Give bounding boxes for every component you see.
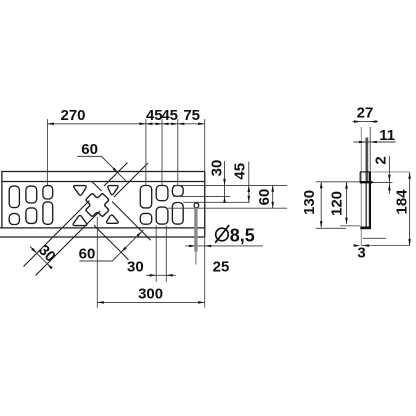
svg-text:30: 30 <box>127 259 144 276</box>
dim line 2 tick <box>388 156 390 194</box>
svg-text:45: 45 <box>146 107 163 124</box>
svg-text:30: 30 <box>209 160 226 177</box>
side ext 27 right <box>369 127 371 172</box>
arrow 30v lower <box>223 196 226 203</box>
dim line 184 <box>409 172 411 245</box>
arrow 25 right <box>205 245 212 248</box>
arrow 60v lower <box>271 202 274 209</box>
arrow 45v upper <box>248 186 251 193</box>
extension line lower-slot-top C <box>183 201 249 203</box>
svg-text:25: 25 <box>213 259 230 276</box>
tray rail bottom inner edge <box>0 227 205 229</box>
arrow 30v upper <box>223 179 226 186</box>
slot colA lower <box>140 213 151 224</box>
extension line right end <box>204 119 206 308</box>
dim line 45 vert <box>248 162 250 203</box>
svg-text:27: 27 <box>357 105 374 122</box>
arrow 11 left <box>359 141 366 144</box>
side ext 184 bottom <box>361 245 409 247</box>
side web line inner <box>365 138 367 228</box>
side ext 120 bottom <box>340 225 360 227</box>
slot colA upper <box>140 186 151 208</box>
hole circle <box>194 203 199 208</box>
arrows at colB <box>156 123 163 126</box>
dim line 130 <box>320 182 322 228</box>
arrow 27 right <box>370 120 377 123</box>
svg-text:130: 130 <box>301 190 318 215</box>
side ext 130 bottom <box>316 227 346 229</box>
arrow 30diag lower <box>47 264 53 270</box>
triangle hole T3 (up) <box>73 215 87 225</box>
arrow 45v lower <box>248 196 251 203</box>
side web line inner2 <box>367 138 369 183</box>
svg-text:11: 11 <box>379 127 395 144</box>
dim line 27 <box>352 121 377 123</box>
arrow 300 right <box>198 301 205 304</box>
side flange top <box>360 171 371 173</box>
arrow 120 top <box>345 182 348 189</box>
side ext top (flange bottom extended) <box>316 181 360 183</box>
arrow 2 upper <box>388 175 391 182</box>
cross-shaped hole (rotated 45) <box>80 188 114 222</box>
svg-text:75: 75 <box>183 107 200 124</box>
slot col3 upper <box>43 186 53 199</box>
arrow 25 left <box>189 245 196 248</box>
arrow 130 bottom <box>320 221 323 228</box>
extension line col3 center <box>46 119 48 185</box>
arrow 30b right <box>166 274 173 277</box>
extension line small-slot-bottom B <box>173 195 230 197</box>
slot colB upper <box>156 186 168 201</box>
svg-text:2: 2 <box>373 156 390 164</box>
side web line outer <box>369 172 371 229</box>
extension line bend center <box>96 217 98 308</box>
slot col2 lower <box>26 208 37 224</box>
extension line slot-top A <box>173 184 287 186</box>
extension line 30-bottom right <box>165 226 167 282</box>
arrow 130 top <box>320 182 323 189</box>
arrow 30diag upper <box>31 248 37 254</box>
side dim 3 stub line <box>363 237 386 239</box>
triangle hole T4 (up) <box>107 215 119 223</box>
svg-text:300: 300 <box>138 285 163 302</box>
arrow 75 right <box>198 123 205 126</box>
arrow 60v upper <box>271 185 274 192</box>
slot colC upper <box>172 186 183 197</box>
svg-text:45: 45 <box>231 163 248 180</box>
svg-text:120: 120 <box>328 191 345 216</box>
slot colC lower <box>172 203 183 225</box>
svg-text:45: 45 <box>161 107 178 124</box>
arrow 30b left <box>150 274 157 277</box>
arrow 3 right <box>363 244 370 247</box>
arrow 184 bottom <box>408 239 411 246</box>
side flange bottom ext <box>373 181 393 183</box>
bend line \ no.1 lower <box>112 202 151 241</box>
svg-text:270: 270 <box>60 107 85 124</box>
tray rail bottom edge <box>0 236 205 238</box>
bend line \ no.2 <box>94 225 129 260</box>
bend line / no.2 upper <box>114 163 148 197</box>
side flange bottom thick <box>360 181 373 183</box>
svg-text:60: 60 <box>256 189 273 206</box>
dim line 60 vert <box>272 185 274 208</box>
dim line 120 <box>346 182 348 224</box>
svg-text:60: 60 <box>81 141 98 158</box>
dim line 30 vert <box>224 161 226 203</box>
side ext line long vertical <box>360 127 362 246</box>
leader 60 bottom <box>80 230 144 261</box>
tray rail left edge <box>1 171 3 229</box>
arrow 184 top <box>408 172 411 179</box>
arrow 2 lower <box>388 184 391 191</box>
triangle hole T2 (down) <box>108 186 118 195</box>
tray rail top inner edge <box>2 181 205 183</box>
slot colB lower <box>156 207 168 224</box>
arrows at colC <box>171 123 178 126</box>
bend line / no.2 lower <box>36 211 101 276</box>
label diameter 8,5 <box>216 228 229 241</box>
arrow 27 left <box>354 120 361 123</box>
dim line 25 <box>185 245 263 247</box>
arrow 60 top <box>113 168 119 174</box>
dim line 30 diagonal <box>30 247 51 268</box>
extension line colB center <box>161 119 163 185</box>
arrow 11 right <box>370 141 377 144</box>
svg-text:8,5: 8,5 <box>230 225 255 245</box>
arrow 270 left <box>47 123 54 126</box>
extension line colC center <box>177 119 179 185</box>
arrow 120 bottom <box>345 218 348 225</box>
dim line 11 <box>354 141 396 143</box>
arrow 60 bottom upper <box>137 231 143 237</box>
bend line / no.1 lower <box>24 201 90 267</box>
svg-text:60: 60 <box>79 246 96 263</box>
triangle hole T1 (down) <box>74 186 87 196</box>
extension line 30-bottom left <box>155 226 157 282</box>
slot col3 lower <box>43 202 53 224</box>
slot col1 lower <box>9 214 19 225</box>
tray rail top edge <box>2 171 205 173</box>
dim line 300 <box>97 301 204 303</box>
extension line lower-slot-top E <box>168 207 287 209</box>
extension line colA center <box>145 119 147 185</box>
hole centerline thin <box>195 252 197 265</box>
slot col2 upper <box>26 186 37 203</box>
side flange left cap <box>359 172 361 183</box>
arrows at colA <box>139 123 146 126</box>
side bottom cap <box>360 227 371 230</box>
tray rail right end edge <box>204 172 206 238</box>
slot col1 upper <box>9 186 19 208</box>
side flange top ext gray <box>371 171 410 173</box>
dim line 30 bottom <box>146 274 176 276</box>
arrow 3 left <box>354 244 361 247</box>
arrow 60 bottom lower <box>121 247 127 253</box>
bend line \ no.1 upper <box>92 182 102 192</box>
arrow 300 left <box>97 301 104 304</box>
svg-text:3: 3 <box>357 245 365 262</box>
leader 60 top <box>77 156 126 181</box>
bend line / no.1 upper <box>104 163 128 187</box>
dim line 270/45/45/75 <box>47 123 204 125</box>
svg-text:184: 184 <box>393 189 410 215</box>
hole centerline thick <box>194 208 197 252</box>
